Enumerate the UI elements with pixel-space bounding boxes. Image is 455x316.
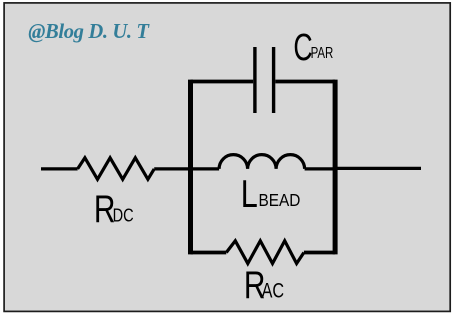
svg-text:C: C xyxy=(293,25,312,68)
svg-text:AC: AC xyxy=(262,278,285,301)
wire bottom branch right segment xyxy=(304,251,335,255)
watermark @Blog D. U. T xyxy=(28,21,150,43)
label C_PAR value xyxy=(293,25,333,68)
node B right junction vertical bus xyxy=(333,80,338,255)
inductor L1 L_BEAD coil xyxy=(219,155,305,169)
label R_DC value xyxy=(94,187,134,231)
svg-text:L: L xyxy=(241,172,258,215)
capacitor C1 C_PAR plates xyxy=(255,47,274,113)
wire middle branch right segment xyxy=(305,167,336,170)
wire left lead xyxy=(41,167,78,170)
svg-text:@Blog D. U. T: @Blog D. U. T xyxy=(28,21,150,43)
wire bottom branch left segment xyxy=(191,251,227,255)
node A left junction vertical bus xyxy=(188,80,193,255)
wire top branch right segment xyxy=(275,80,335,84)
wire top branch left segment xyxy=(191,80,254,84)
wire right output lead xyxy=(335,167,421,170)
svg-text:BEAD: BEAD xyxy=(259,190,301,210)
resistor R1 R_DC zigzag xyxy=(78,158,155,180)
wire from R_DC to node A xyxy=(154,167,190,170)
label R_AC value xyxy=(244,263,284,307)
svg-text:DC: DC xyxy=(113,205,134,226)
svg-text:PAR: PAR xyxy=(311,44,334,61)
resistor R2 R_AC zigzag xyxy=(226,241,304,264)
label L_BEAD value xyxy=(241,172,301,215)
wire middle branch left segment xyxy=(191,167,220,170)
